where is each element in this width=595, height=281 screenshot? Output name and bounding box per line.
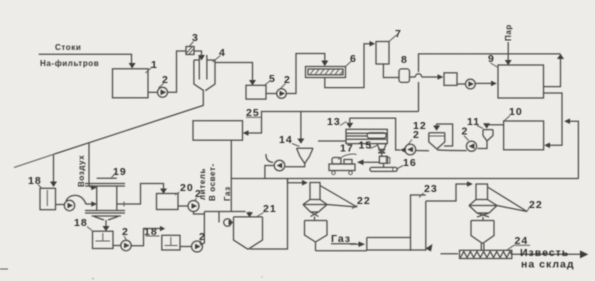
pump 2 (under hopper 11) [466, 141, 476, 151]
svg-text:6: 6 [350, 53, 357, 65]
wire into tank 18 left [53, 155, 55, 182]
arrow into tank 1 [129, 63, 136, 69]
wire left feed into stack 13 [318, 140, 346, 142]
svg-text:2: 2 [122, 226, 129, 238]
gas duct [367, 238, 411, 251]
pump (after tank 18 left) [56, 204, 65, 206]
svg-text:Известь: Известь [520, 247, 569, 259]
trap 8 [399, 69, 410, 83]
item 3 hatched box [186, 47, 194, 55]
svg-text:5: 5 [269, 73, 276, 85]
heat exchanger 6 [306, 67, 346, 78]
svg-text:15: 15 [359, 140, 373, 152]
svg-text:13: 13 [327, 116, 341, 128]
pump 2 (after tank 18-2) [113, 245, 121, 247]
duct corner arrow [426, 244, 433, 252]
cyclone 22R bucket [471, 221, 494, 251]
wire column 19 right port to box 20 [117, 184, 164, 205]
main flue line y178.5 [231, 178, 578, 180]
box 25 [193, 121, 243, 141]
pump (after tank 18-3) [180, 246, 192, 248]
cyclone 22L bucket [305, 221, 328, 251]
tank 1 [113, 69, 149, 98]
wire tray stack 13 to pump A [350, 118, 401, 150]
pump 2 (after box 20) [178, 205, 188, 207]
rotary feeder 15 under stack [377, 144, 386, 157]
svg-text:Пар: Пар [504, 24, 513, 41]
svg-text:2: 2 [462, 126, 469, 138]
pump (before tank 9) [457, 83, 466, 85]
degasser small box [444, 73, 457, 86]
wire recycle tank9 top loop [544, 59, 561, 87]
cyclone 22R [476, 184, 488, 200]
screw conveyor 24 [460, 250, 512, 258]
small artifact bottom-left [0, 268, 8, 270]
wire clarifier to box 5 [215, 63, 253, 81]
pump 2 (after box 5) [266, 93, 277, 95]
tray stack 13 [346, 129, 387, 143]
wire trap 8 to degasser box (crossing hop) [410, 76, 416, 78]
wire item3 to clarifier 4 [194, 51, 202, 55]
wire pump to tank 18-3 [131, 229, 160, 246]
tank 9 [498, 65, 544, 98]
wire riser right side [570, 121, 578, 179]
wire feeder 15 to blower 17 [363, 161, 380, 163]
svg-text:2: 2 [413, 129, 420, 141]
wire steam into tank 9 [507, 42, 509, 60]
svg-text:16: 16 [403, 157, 417, 169]
wire pump11 to hopper 12 loop [437, 124, 453, 146]
tank 18 (third) [162, 235, 180, 250]
wire into tray stack 13 [349, 118, 351, 122]
svg-text:4: 4 [219, 47, 226, 59]
svg-text:7: 7 [395, 28, 402, 40]
column 7 [376, 42, 389, 65]
wire conveyor out with arrow [512, 253, 580, 255]
svg-text:1: 1 [151, 59, 158, 71]
svg-text:На-фильтров: На-фильтров [40, 59, 99, 68]
svg-text:21: 21 [263, 203, 277, 215]
tank 18 (below column 19) [93, 231, 114, 248]
dashes left of conveyor [441, 253, 459, 255]
hopper 14 [297, 148, 314, 163]
svg-text:Воздух: Воздух [77, 155, 86, 187]
wire pump to tank 9 [475, 82, 491, 84]
wire tank 21 bottom to flue line [250, 179, 288, 250]
hopper 12 [429, 133, 445, 149]
svg-text:22: 22 [357, 195, 371, 207]
box 20 [157, 194, 179, 210]
wire: inlet line [39, 54, 132, 63]
air line into column 19 [89, 143, 91, 188]
box 10 [504, 121, 544, 150]
wire cyclone 22L feed [288, 179, 303, 183]
box 5 [246, 85, 266, 99]
svg-text:18: 18 [74, 217, 88, 229]
blower 17 [329, 164, 355, 171]
clarifier 4 [199, 55, 207, 80]
wire pump 20 down to junction line [194, 212, 205, 215]
svg-text:В освет-: В освет- [208, 163, 217, 201]
cyclone 22L [310, 183, 320, 200]
wire column 7 to trap 8 [383, 64, 399, 78]
svg-text:20: 20 [180, 182, 194, 194]
wire cyclone 22L dust line to duct [316, 250, 367, 252]
wire tank9 to box 10 [544, 93, 563, 145]
scan speck [92, 278, 94, 280]
svg-text:17: 17 [340, 143, 354, 155]
wire HX6 to column 7 [325, 44, 370, 88]
junction feed line to tank 21 [204, 211, 245, 213]
svg-text:на склад: на склад [521, 259, 575, 271]
wire box25 down to tank 21 junction [230, 140, 232, 211]
pump 2 (after tank 1) [148, 91, 158, 93]
svg-text:19: 19 [113, 166, 127, 178]
hopper 11 [483, 130, 493, 141]
wire branch to hopper 14 [300, 112, 302, 139]
svg-text:23: 23 [424, 183, 438, 195]
svg-text:Стоки: Стоки [55, 43, 81, 52]
svg-text:8: 8 [401, 54, 408, 66]
diagonal line from clarifier 4 to tank 18 [55, 91, 204, 154]
wire box10 to hopper 11 [489, 124, 504, 126]
valve branch into tank 21 side [218, 212, 220, 223]
screw conveyor 16 [370, 167, 397, 171]
wire pump 18-3 up to junction [201, 212, 205, 245]
long recycle line y111 [249, 112, 419, 134]
pump A (left of hopper 12) [405, 144, 416, 155]
svg-text:22: 22 [529, 199, 543, 211]
wire pump to item 3 [168, 51, 187, 92]
wire hopper12 bottom to pump B [437, 149, 467, 152]
tank 21 [234, 217, 263, 249]
wire riser to cyclone 22R [426, 184, 467, 201]
column 19 [97, 177, 117, 179]
tank 18 (left) [40, 188, 56, 209]
svg-text:10: 10 [509, 106, 523, 118]
svg-text:14: 14 [279, 134, 293, 146]
pump (under hopper 14) [266, 154, 273, 163]
svg-text:18: 18 [28, 175, 42, 187]
duct riser [411, 195, 426, 251]
wire pump to heat exchanger 6 [286, 54, 325, 94]
svg-text:Газ: Газ [223, 186, 232, 201]
wire pump to column 19 [66, 195, 91, 204]
